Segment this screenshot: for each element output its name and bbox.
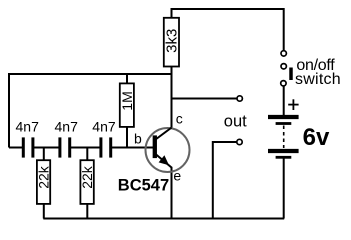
svg-text:c: c (176, 110, 183, 126)
svg-text:4n7: 4n7 (16, 119, 40, 135)
svg-text:6v: 6v (303, 124, 330, 151)
svg-text:4n7: 4n7 (55, 119, 79, 135)
svg-text:1M: 1M (119, 91, 135, 110)
svg-text:4n7: 4n7 (92, 119, 116, 135)
svg-text:switch: switch (295, 71, 341, 88)
svg-text:22k: 22k (79, 165, 95, 189)
svg-text:3k3: 3k3 (164, 29, 181, 53)
svg-text:e: e (173, 167, 181, 183)
svg-text:b: b (134, 131, 142, 147)
svg-text:22k: 22k (36, 165, 52, 189)
svg-text:out: out (224, 113, 247, 131)
svg-text:BC547: BC547 (118, 177, 169, 195)
